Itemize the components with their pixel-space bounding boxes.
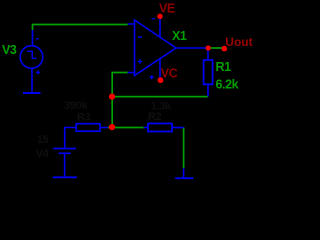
svg-text:VE: VE bbox=[159, 1, 175, 15]
svg-text:VC: VC bbox=[161, 66, 178, 80]
svg-text:R1: R1 bbox=[216, 60, 232, 74]
svg-text:R2: R2 bbox=[148, 111, 162, 123]
svg-text:X1: X1 bbox=[172, 29, 187, 43]
svg-text:6.2k: 6.2k bbox=[216, 78, 239, 92]
svg-text:Uout: Uout bbox=[225, 35, 252, 49]
svg-text:V4: V4 bbox=[36, 148, 50, 160]
svg-text:V3: V3 bbox=[2, 43, 17, 57]
svg-text:15: 15 bbox=[37, 134, 49, 146]
svg-text:R3: R3 bbox=[77, 111, 91, 123]
svg-text:390k: 390k bbox=[64, 100, 88, 112]
